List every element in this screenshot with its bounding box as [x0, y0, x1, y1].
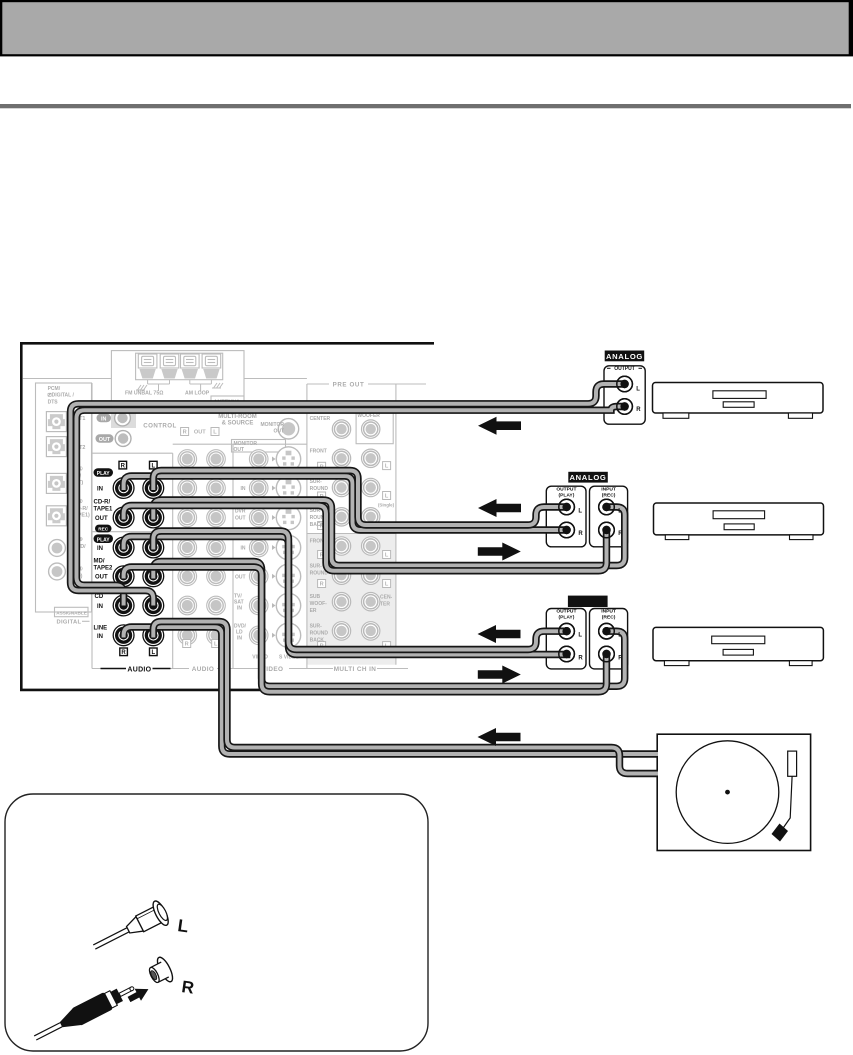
svg-text:ASSIGNABLE: ASSIGNABLE — [56, 611, 87, 616]
svg-text:CD-R/: CD-R/ — [94, 500, 111, 506]
svg-text:TAPE2: TAPE2 — [94, 565, 114, 571]
gray boxed letters — [181, 428, 391, 650]
svg-text:& SOURCE: & SOURCE — [222, 421, 254, 427]
svg-text:R: R — [320, 582, 324, 588]
svg-text:R: R — [618, 531, 623, 537]
svg-text:DTS: DTS — [48, 399, 59, 405]
svg-text:FRONT: FRONT — [310, 448, 327, 454]
turntable platter — [676, 741, 779, 844]
svg-text:IN: IN — [97, 487, 103, 493]
svg-text:LINE: LINE — [94, 626, 108, 632]
svg-text:(PLAY): (PLAY) — [558, 615, 574, 621]
wire B-L: TAPE1 PLAY IN L to OUTPUT(PLAY) L — [153, 471, 566, 526]
svg-text:MD/: MD/ — [94, 559, 105, 565]
video composite + s-video columns — [249, 447, 300, 648]
svg-text:L: L — [385, 494, 389, 500]
svg-text:SUR-: SUR- — [310, 624, 323, 630]
arrow left (group 2 play) — [478, 499, 521, 517]
svg-text:ROUND: ROUND — [310, 631, 329, 637]
arrow left (CD player row) — [478, 417, 521, 435]
audio section bottom line dashes — [101, 668, 171, 670]
wire F-R: LINE IN R to turntable (straight) — [124, 627, 658, 754]
svg-text:R: R — [185, 642, 189, 648]
svg-text:WOOF-: WOOF- — [310, 601, 328, 607]
svg-text:AUDIO: AUDIO — [192, 666, 215, 673]
svg-text:OUT: OUT — [99, 437, 111, 443]
white RCA plug (L) — [88, 899, 171, 959]
svg-text:DIGITAL: DIGITAL — [57, 620, 82, 626]
svg-text:CD: CD — [95, 594, 104, 600]
svg-text:OUT: OUT — [234, 447, 245, 453]
svg-text:MULTI CH IN: MULTI CH IN — [334, 666, 377, 673]
svg-text:INPUT: INPUT — [601, 486, 616, 492]
svg-text:L: L — [214, 642, 218, 648]
svg-text:IN: IN — [97, 634, 103, 640]
svg-text:MULTI-ROOM: MULTI-ROOM — [218, 414, 257, 420]
bottom section lines with label gaps — [92, 668, 124, 670]
digital box — [36, 383, 92, 612]
svg-text:IN: IN — [241, 486, 246, 492]
svg-text:MONITOR: MONITOR — [260, 422, 284, 428]
control square background — [111, 407, 136, 429]
R / L header boxes — [119, 461, 157, 655]
wire F-L: LINE IN L to turntable (with jog) — [153, 622, 658, 774]
coax digital jacks — [49, 540, 66, 580]
top banner — [0, 0, 853, 56]
svg-text:ER: ER — [310, 608, 317, 614]
svg-text:R: R — [121, 650, 126, 656]
control jacks + pills — [96, 410, 132, 446]
svg-text:TER: TER — [380, 602, 390, 608]
PRE OUT hidden black label — [315, 405, 346, 413]
svg-text:IN: IN — [237, 636, 242, 642]
svg-text:AUDIO: AUDIO — [127, 666, 151, 673]
wire E-L: TAPE2 OUT L to MD INPUT(REC) L — [153, 562, 624, 687]
RCA jack (R socket) — [145, 955, 175, 988]
jack CD OUTPUT L — [617, 376, 633, 392]
svg-text:(PLAY): (PLAY) — [558, 492, 574, 498]
svg-text:L: L — [213, 430, 217, 436]
svg-text:OUTPUT: OUTPUT — [556, 609, 576, 615]
wire A-L: CD player OUTPUT L to CD IN L — [71, 384, 625, 606]
svg-text:L: L — [618, 508, 622, 514]
tonearm base — [788, 751, 797, 776]
MD recorder / tape deck (device 3) — [653, 627, 823, 665]
svg-text:OUT: OUT — [235, 575, 246, 581]
svg-text:L: L — [636, 386, 640, 392]
turntable body — [657, 734, 810, 850]
ANALOG label group 1 — [605, 351, 645, 362]
spindle — [725, 790, 730, 795]
svg-text:ANALOG: ANALOG — [606, 352, 643, 361]
svg-text:L: L — [618, 633, 622, 639]
svg-text:PLAY: PLAY — [97, 537, 111, 543]
jack MD INPUT(REC) R — [599, 646, 615, 662]
svg-text:BACK: BACK — [310, 522, 325, 528]
gray texts — [47, 381, 395, 673]
arrow left (turntable row) — [478, 728, 521, 746]
svg-text:OUT: OUT — [95, 516, 108, 522]
svg-text:SUB: SUB — [310, 594, 321, 600]
svg-text:ANALOG: ANALOG — [569, 473, 606, 482]
sub woofer pre-out box — [356, 405, 393, 444]
svg-text:PCM/: PCM/ — [48, 386, 61, 392]
insertion arrow — [126, 983, 152, 1005]
wire C-L: TAPE1 OUT L to INPUT(REC) L — [153, 500, 624, 566]
antenna terminal block — [136, 353, 223, 380]
svg-text:IN: IN — [97, 604, 103, 610]
row labels — [94, 468, 152, 673]
wire D-R: TAPE2 PLAY IN R to MD OUTPUT(PLAY) R — [124, 537, 567, 655]
jack CD-R INPUT(REC) R — [599, 522, 615, 538]
wire C-R: TAPE1 OUT R to INPUT(REC) R — [124, 506, 607, 571]
boxes group 2 — [546, 486, 586, 547]
svg-text:REC: REC — [98, 527, 109, 532]
section lines — [23, 351, 426, 669]
wire B-R: TAPE1 PLAY IN R to OUTPUT(PLAY) R — [124, 476, 567, 530]
svg-text:R: R — [578, 655, 583, 661]
pre out / multi ch in columns — [332, 420, 380, 640]
PRE OUT header line — [307, 383, 329, 385]
jack MD OUTPUT(PLAY) L — [559, 623, 575, 639]
CD player (device 1) — [653, 383, 824, 419]
svg-text:R: R — [183, 430, 187, 436]
jack CD OUTPUT R — [617, 399, 633, 415]
svg-text:⎚DIGITAL /: ⎚DIGITAL / — [47, 393, 75, 399]
svg-text:TAPE1: TAPE1 — [94, 506, 114, 512]
box 1: OUTPUT — [604, 366, 645, 424]
svg-text:ROUND: ROUND — [310, 486, 329, 492]
svg-text:AM LOOP: AM LOOP — [185, 390, 210, 396]
svg-text:(REC): (REC) — [602, 615, 616, 621]
svg-text:R: R — [636, 407, 641, 413]
optical jacks — [46, 412, 66, 432]
black RCA plug — [31, 979, 138, 1046]
panel border (open at right) — [21, 343, 434, 690]
CD recorder / tape deck (device 2) — [654, 503, 824, 540]
antenna terminals — [138, 354, 157, 379]
svg-text:IN: IN — [241, 546, 246, 552]
svg-text:SUR-: SUR- — [310, 564, 323, 570]
tonearm — [784, 776, 793, 827]
svg-text:OUTPUT: OUTPUT — [614, 366, 635, 372]
svg-text:OUT: OUT — [273, 428, 284, 434]
jack CD-R OUTPUT(PLAY) L — [559, 499, 575, 515]
component monitor out jack — [278, 419, 298, 439]
jack CD-R OUTPUT(PLAY) R — [559, 522, 575, 538]
svg-text:OUT: OUT — [235, 516, 246, 522]
svg-text:R: R — [121, 463, 126, 469]
svg-text:L: L — [578, 508, 582, 514]
ASSIGNABLE box — [55, 607, 89, 616]
svg-text:FM UNBAL 75Ω: FM UNBAL 75Ω — [125, 390, 163, 396]
svg-text:SUR-: SUR- — [310, 479, 323, 485]
svg-text:(Single): (Single) — [378, 502, 395, 507]
cartridge — [772, 824, 789, 842]
svg-text:IN: IN — [97, 546, 103, 552]
black jacks 2 cols x 6 rows — [113, 478, 134, 499]
svg-text:R: R — [618, 655, 623, 661]
wire E-R: TAPE2 OUT R to MD INPUT(REC) R — [124, 567, 607, 692]
wire D-L: TAPE2 PLAY IN L to MD OUTPUT(PLAY) L — [153, 531, 566, 650]
svg-text:L: L — [385, 553, 389, 559]
arrow right (group 3 rec) — [478, 666, 521, 684]
svg-text:(REC): (REC) — [602, 492, 616, 498]
svg-text:OUT: OUT — [95, 575, 108, 581]
svg-text:BACK: BACK — [310, 638, 325, 644]
svg-text:OUTPUT: OUTPUT — [556, 486, 576, 492]
svg-text:L: L — [385, 582, 389, 588]
svg-text:L: L — [385, 464, 389, 470]
svg-text:PLAY: PLAY — [97, 471, 111, 477]
svg-text:CENTER: CENTER — [310, 416, 331, 422]
ANALOG label group 2 — [568, 472, 608, 483]
monitor out box — [232, 440, 286, 453]
svg-text:OUT: OUT — [194, 430, 206, 436]
jack MD INPUT(REC) L — [599, 623, 615, 639]
audio2 gray jack columns — [178, 450, 225, 645]
gray rule — [0, 104, 851, 108]
wire A-R: CD player OUTPUT R to CD IN R — [77, 407, 625, 606]
jack CD-R INPUT(REC) L — [599, 499, 615, 515]
svg-text:IN: IN — [237, 606, 242, 612]
svg-text:CEN-: CEN- — [380, 595, 393, 601]
inset rounded box — [5, 794, 428, 1051]
svg-text:CONTROL: CONTROL — [143, 422, 176, 429]
svg-text:L: L — [151, 650, 155, 656]
turntable — [657, 734, 810, 850]
svg-text:PRE OUT: PRE OUT — [333, 381, 365, 388]
black label group 3 (blank) — [568, 596, 608, 607]
svg-text:INPUT: INPUT — [601, 609, 616, 615]
svg-text:R: R — [578, 531, 583, 537]
svg-text:DVR: DVR — [235, 508, 246, 514]
small > marks — [272, 457, 276, 638]
shaded MULTI CH IN background — [307, 534, 396, 665]
svg-text:L: L — [578, 633, 582, 639]
svg-text:R: R — [180, 977, 195, 998]
antenna section box — [111, 351, 244, 406]
svg-text:IN: IN — [101, 417, 106, 423]
arrow right (group 2 rec) — [478, 543, 521, 561]
antenna bracket marks — [136, 380, 223, 391]
arrow left (group 3 play) — [478, 625, 521, 643]
jack MD OUTPUT(PLAY) R — [559, 646, 575, 662]
boxes group 3 — [546, 609, 586, 669]
